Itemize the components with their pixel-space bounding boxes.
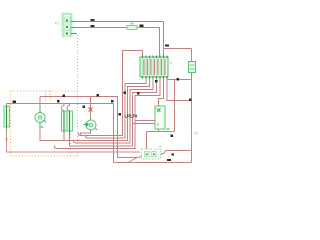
wire M2 top (90, 97, 92, 121)
junction mark near relay bottom (171, 135, 174, 138)
label on bus left (137, 92, 140, 95)
bus wire 3 (40, 79, 150, 141)
fuse F2 on wire W2 (127, 23, 137, 30)
dashed box around left assembly (11, 91, 78, 156)
crossing mark on M2 wire (89, 108, 93, 112)
wire M1 bottom to bus (39, 128, 41, 141)
junction label M2 top (83, 106, 86, 109)
hook pin to fuse F3 (62, 104, 65, 111)
connector P1 top-left (61, 12, 78, 38)
junction label near hooks (57, 100, 60, 103)
net label on right branch (165, 45, 169, 47)
fuse F3 (62, 111, 68, 134)
LED D1 on right column (189, 62, 196, 73)
junction label on that wire (97, 94, 100, 97)
resistor network RN1 body (140, 56, 168, 79)
diagonal feed from bottom net to X1 (128, 158, 137, 163)
X1 right pin hook (161, 151, 167, 155)
curl terminals at bus left ends (55, 133, 88, 149)
net label on W1 (91, 19, 95, 21)
bus wire 4 (76, 79, 154, 144)
F1 bottom pin stub (6, 127, 8, 130)
main left horizontal net y=103 (7, 104, 114, 163)
net label on W2 (91, 25, 95, 27)
label near x=119 wire (119, 113, 122, 116)
wire RN1 right pin nets (167, 79, 192, 132)
label right of X1 (167, 159, 171, 161)
wire W3 right branch and right column down to bottom (114, 49, 192, 163)
hook into X1 left pin (138, 154, 142, 158)
wire W2 second top wire from P1 pin2 down to RN1 (76, 28, 160, 58)
label on bus corner left (124, 92, 127, 95)
green net segment on right column (191, 128, 193, 140)
bus wire 5 (70, 79, 157, 147)
fuse F1 left (4, 106, 10, 127)
svg-text:P1: P1 (55, 22, 59, 26)
dashed link fuse F4 down (70, 131, 72, 156)
hook pin to fuse F4 (67, 104, 70, 111)
crystal X1 bottom (142, 149, 161, 159)
svg-text:u: u (159, 145, 161, 149)
junction right column (189, 99, 192, 102)
wire to relay K1 top (159, 79, 164, 107)
long bottom net from F1 (7, 130, 141, 153)
F1 green label tick (6, 138, 8, 141)
fuse F4 (67, 111, 73, 134)
dashed inner link to motor M1 (45, 91, 47, 107)
motor M2 (84, 120, 98, 130)
relay stub nets from bus (133, 121, 156, 124)
junction on right horizontal (177, 78, 180, 81)
dashed link from P1 pin3 down (51, 35, 78, 103)
wire M2 bottom hook to bus (81, 130, 91, 136)
wire W1 top from connector P1 pin1 to right column (76, 22, 164, 49)
wire M1 top from net (39, 104, 41, 107)
bus wire 6 (57, 79, 161, 149)
motor M1 (35, 113, 46, 129)
X1 right pin net to right column (166, 150, 192, 152)
bus wire 2 (88, 79, 147, 139)
wire from motor M2 top right then down to X1 left pin (40, 97, 138, 158)
svg-text:+5: +5 (194, 132, 198, 136)
junction label left fuse top (13, 101, 17, 104)
svg-text:LPLT4: LPLT4 (125, 114, 138, 119)
relay K1 (155, 106, 165, 129)
label near RN1 bottom pin (155, 80, 158, 83)
M1 top pin stub (39, 106, 41, 113)
wire relay K1 bottom to X1 top (147, 129, 175, 149)
net label near W2 fuse (140, 25, 144, 28)
green label right of relay (167, 128, 170, 130)
bus wire 1 from RN1 pin (81, 51, 143, 136)
